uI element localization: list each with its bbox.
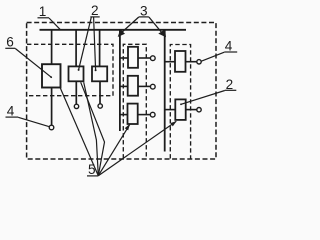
stub bus to M2 — [120, 85, 128, 87]
leader 2b to B2 — [94, 17, 96, 70]
wire B2 down to terminal — [99, 81, 101, 104]
svg-text:4: 4 — [225, 39, 233, 54]
wire block6 down to terminal — [51, 88, 53, 126]
svg-text:2: 2 — [91, 3, 99, 18]
leader 5a to block 6 corner — [60, 88, 98, 176]
terminal circle R1 — [197, 60, 201, 64]
svg-text:6: 6 — [6, 35, 14, 50]
right rect R1 — [175, 51, 186, 72]
box B2 — [92, 66, 107, 81]
leader 1 — [49, 18, 61, 30]
wire bus to box B1 — [75, 30, 77, 67]
stub M3 to terminal — [138, 114, 151, 116]
stub R2 to terminal — [186, 109, 197, 111]
terminal circle under B1 — [74, 104, 78, 108]
svg-text:1: 1 — [39, 4, 47, 19]
stub M2 to terminal — [138, 85, 151, 87]
outer dashed enclosure — [27, 23, 216, 160]
stub bus to R2 — [165, 109, 176, 111]
middle dashed box — [123, 44, 146, 158]
middle rect M2 — [128, 76, 138, 96]
middle rect M1 — [128, 47, 138, 68]
leader 5b to B1 corner (bent) — [84, 82, 99, 175]
stub M1 to terminal — [138, 57, 151, 59]
leader 6 into block 6 — [15, 49, 51, 78]
middle rect M3 — [128, 104, 138, 124]
leader 3b with arrow to right bus — [149, 17, 163, 34]
leader 5e with arrow to R2 corner — [98, 121, 176, 175]
leader 5c to B1 corner (bent) — [81, 82, 105, 175]
right rect R2 — [175, 99, 185, 120]
terminal circle M3 — [150, 112, 155, 117]
terminal circle M1 — [150, 56, 155, 61]
box B1 — [69, 66, 84, 81]
top bus wire — [40, 29, 187, 31]
wire B1 down to terminal — [75, 81, 77, 104]
stub bus to R1 — [165, 61, 175, 63]
right vertical bus — [164, 30, 166, 152]
stub bus to M3 — [120, 114, 128, 116]
terminal circle under B2 — [98, 104, 102, 108]
terminal circle under block 6 — [49, 125, 54, 130]
svg-text:2: 2 — [226, 77, 234, 92]
terminal circle R2 — [197, 108, 201, 112]
leader 4 left to terminal under block 6 — [18, 117, 49, 126]
leader 4 right to R1 terminal — [201, 52, 224, 61]
leader 5d with arrow to M3 corner — [98, 124, 130, 175]
leader 2a to B1 — [79, 17, 92, 69]
stub R1 to terminal — [186, 61, 197, 63]
middle vertical bus — [119, 30, 121, 131]
svg-text:5: 5 — [88, 162, 96, 177]
block 6 big box — [42, 64, 61, 87]
stub bus to M1 — [120, 57, 128, 59]
wire bus to block 6 — [51, 30, 53, 64]
leader 3a with arrow to middle bus — [121, 17, 139, 34]
svg-text:4: 4 — [7, 103, 15, 118]
right dashed box — [170, 45, 190, 159]
wire bus to box B2 — [99, 30, 101, 67]
leader 2 right into R2 — [181, 91, 225, 105]
terminal circle M2 — [150, 84, 155, 89]
inner dashed box left group — [27, 44, 113, 95]
